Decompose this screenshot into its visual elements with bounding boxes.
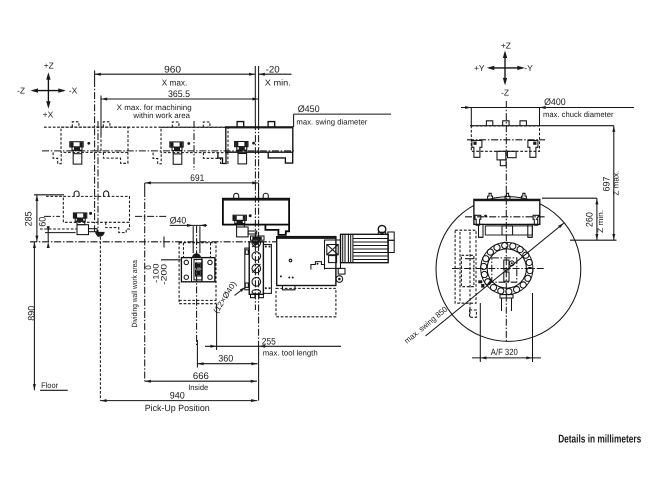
svg-text:Dividing wall work area: Dividing wall work area — [130, 259, 139, 327]
center line X max (double) — [94, 80, 96, 232]
slide lower travel (phantom) — [276, 288, 336, 316]
dimension 697 Z max — [613, 126, 615, 241]
svg-text:285: 285 — [24, 211, 35, 226]
svg-text:max. swing diameter: max. swing diameter — [296, 117, 367, 126]
svg-text:666: 666 — [193, 371, 209, 382]
dimension 960 X max — [95, 73, 256, 75]
motor junction box — [388, 232, 394, 240]
work area (dashed) — [179, 243, 216, 304]
spindle head row1 mid position (phantom) — [161, 127, 228, 152]
dimension 691 — [145, 182, 259, 184]
extension line dividing wall — [144, 183, 146, 190]
turret hub square — [492, 258, 517, 282]
svg-text:960: 960 — [164, 64, 181, 75]
drive motor — [341, 234, 389, 262]
turret feet — [251, 294, 255, 297]
tool turret side view — [245, 248, 249, 290]
svg-text:-X: -X — [69, 86, 78, 96]
disc center line — [452, 268, 545, 270]
dimension 60 — [47, 226, 49, 242]
axis cross Y-Z — [489, 67, 523, 69]
rail line row 1 — [44, 126, 226, 128]
leader max swing diameter 450 — [294, 113, 391, 115]
spindle flange — [485, 226, 532, 235]
max swing circle 850 — [436, 197, 581, 342]
dimension dia 400 chuck — [461, 107, 634, 109]
svg-text:X max.: X max. — [162, 77, 188, 87]
dimension A/F 320 — [479, 303, 481, 362]
workpiece blob pick-up — [95, 232, 105, 237]
carriage positions 0 -100 -200 — [161, 259, 181, 261]
svg-text:260: 260 — [585, 212, 596, 227]
conveyor (phantom) right view — [455, 230, 476, 303]
svg-text:-Y: -Y — [524, 63, 533, 73]
spindle head pick-up position (phantom) — [63, 196, 129, 222]
svg-text:890: 890 — [27, 306, 38, 321]
svg-text:Pick-Up Position: Pick-Up Position — [145, 403, 210, 413]
svg-text:365.5: 365.5 — [168, 89, 190, 100]
svg-text:691: 691 — [190, 173, 204, 184]
tool clamp tower — [325, 240, 341, 268]
svg-text:-200: -200 — [160, 263, 169, 285]
chuck phantom center line — [467, 139, 545, 141]
spindle center line right view — [465, 216, 545, 218]
gripper above turret — [251, 236, 265, 240]
svg-text:+Z: +Z — [501, 41, 511, 51]
svg-text:940: 940 — [170, 391, 185, 402]
dimension 255 max tool length — [205, 345, 341, 347]
dimension -20 X min — [259, 73, 292, 75]
svg-text:X min.: X min. — [265, 78, 291, 88]
spindle head row1 X-min position — [226, 127, 293, 152]
motor eyebolt — [378, 225, 386, 233]
svg-text:-20: -20 — [266, 64, 280, 75]
right view center line — [505, 101, 507, 343]
motor support / pulley — [338, 268, 345, 274]
slide feet — [283, 286, 296, 290]
workpiece carrier pallet — [181, 258, 215, 282]
svg-text:Ø40: Ø40 — [170, 216, 187, 227]
tool station lower left — [478, 280, 482, 283]
dimension 365.5 X max for machining — [101, 98, 259, 100]
svg-text:max. chuck diameter: max. chuck diameter — [543, 110, 614, 119]
dimension 940 pick-up position — [100, 400, 257, 402]
dimension 890 — [33, 242, 35, 390]
turret disc front view — [481, 242, 533, 294]
axis cross X-Z — [33, 90, 64, 92]
svg-text:A/F 320: A/F 320 — [491, 347, 518, 357]
svg-text:-Z: -Z — [17, 86, 25, 96]
svg-text:Z max.: Z max. — [612, 171, 621, 196]
svg-text:360: 360 — [218, 353, 233, 364]
spindle head row1 X-max position (phantom) — [61, 127, 128, 152]
spindle center line (double) — [254, 123, 256, 310]
svg-text:within work area: within work area — [132, 111, 190, 120]
workpiece blob spindle — [252, 241, 259, 245]
svg-text:max. tool length: max. tool length — [263, 348, 318, 357]
svg-text:Ø400: Ø400 — [544, 97, 566, 108]
extension line pick-up center — [99, 237, 101, 401]
dimension 666 inside — [145, 380, 257, 382]
leader max swing 850 — [426, 223, 565, 336]
svg-text:Ø450: Ø450 — [298, 104, 320, 115]
dimension 285 — [36, 195, 38, 242]
workpiece dome — [192, 253, 201, 258]
svg-text:60: 60 — [37, 217, 48, 227]
svg-text:Floor: Floor — [41, 381, 58, 390]
svg-text:+Z: +Z — [44, 60, 54, 70]
turret bottom foot — [500, 295, 513, 298]
datum line — [30, 241, 277, 243]
spindle head machining position — [223, 199, 289, 225]
svg-text:+Y: +Y — [474, 63, 485, 73]
svg-text:Z min.: Z min. — [596, 210, 605, 233]
svg-text:Inside: Inside — [188, 383, 208, 392]
cross slide body — [277, 237, 336, 286]
Z max reference line — [470, 125, 614, 127]
pallet center line — [196, 226, 198, 345]
dimension workpiece dia 40 — [170, 224, 208, 226]
spindle head front view — [474, 199, 540, 224]
conveyor lines — [40, 228, 77, 230]
dimension 260 Z min — [596, 198, 598, 240]
svg-text:Details in millimeters: Details in millimeters — [558, 433, 641, 445]
svg-text:+X: +X — [43, 109, 54, 119]
floor line — [40, 389, 68, 391]
svg-text:-Z: -Z — [501, 88, 509, 98]
dimension 360 — [197, 363, 257, 365]
center line row 1 — [42, 150, 294, 152]
svg-text:255: 255 — [262, 336, 276, 347]
chuck at Z max (phantom) — [471, 126, 539, 151]
